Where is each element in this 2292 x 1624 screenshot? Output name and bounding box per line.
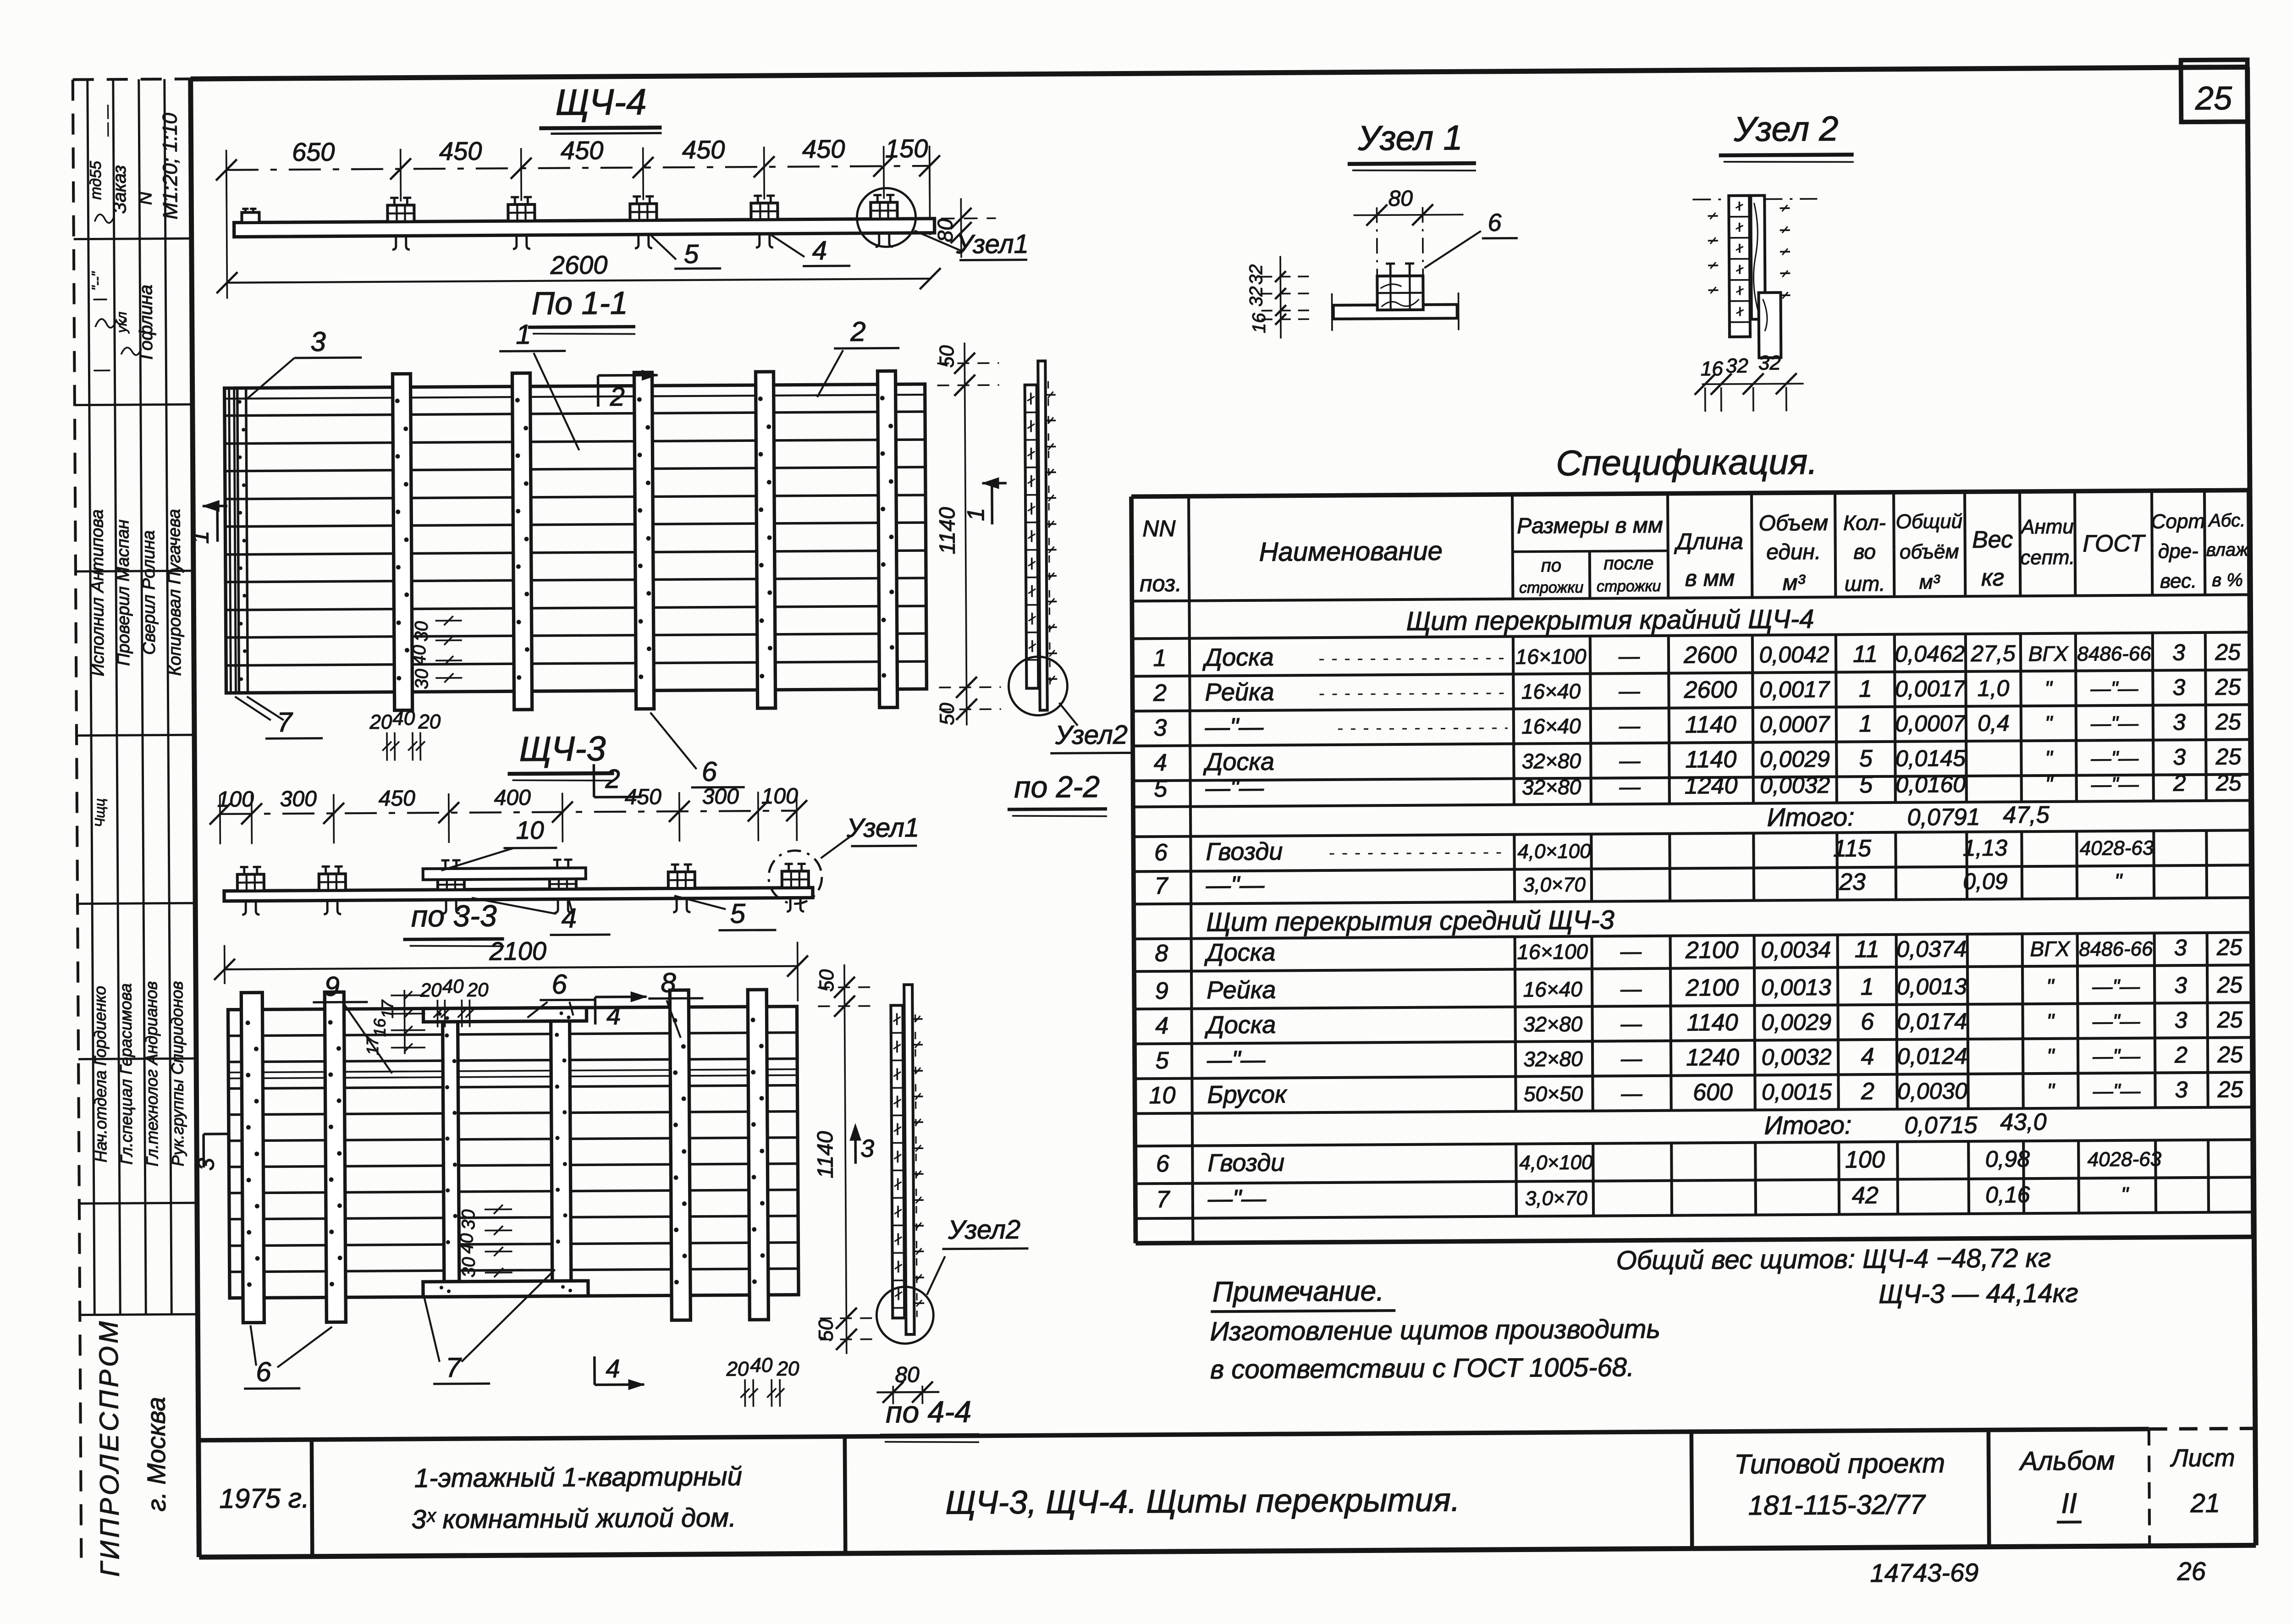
svg-text:Длина: Длина — [1674, 528, 1743, 555]
svg-text:30: 30 — [459, 1257, 479, 1277]
svg-text:": " — [2045, 746, 2054, 770]
svg-text:укл: укл — [115, 312, 130, 334]
svg-text:450: 450 — [802, 134, 845, 164]
svg-text:0,16: 0,16 — [1985, 1182, 2030, 1208]
svg-text:9: 9 — [324, 971, 340, 1002]
svg-text:25: 25 — [2215, 639, 2241, 665]
svg-text:0,0374: 0,0374 — [1896, 936, 1967, 962]
svg-text:23: 23 — [1839, 869, 1866, 895]
svg-text:Наименование: Наименование — [1259, 536, 1443, 567]
svg-text:—"—: —"— — [2092, 1045, 2141, 1068]
svg-text:в мм: в мм — [1685, 565, 1735, 591]
svg-text:600: 600 — [1693, 1079, 1733, 1106]
svg-text:10: 10 — [516, 816, 544, 844]
svg-text:7: 7 — [1154, 873, 1168, 899]
svg-text:един.: един. — [1766, 540, 1821, 565]
svg-text:3: 3 — [2175, 1007, 2187, 1033]
svg-text:5: 5 — [1155, 1047, 1169, 1074]
svg-text:0,0032: 0,0032 — [1760, 772, 1830, 798]
svg-text:Сверил Ролина: Сверил Ролина — [139, 530, 159, 655]
svg-text:Размеры в мм: Размеры в мм — [1517, 513, 1663, 539]
svg-text:9: 9 — [1155, 978, 1168, 1004]
svg-text:1: 1 — [1859, 710, 1872, 737]
svg-text:3: 3 — [2174, 972, 2187, 998]
svg-text:450: 450 — [439, 137, 482, 166]
svg-text:40: 40 — [409, 645, 430, 666]
svg-text:0,0034: 0,0034 — [1761, 937, 1831, 963]
svg-text:": " — [2044, 677, 2053, 700]
svg-text:—"—: —"— — [2092, 1010, 2141, 1033]
svg-text:вес.: вес. — [2160, 570, 2197, 592]
svg-text:1: 1 — [1861, 974, 1874, 1000]
svg-text:25: 25 — [2195, 80, 2233, 117]
svg-text:Узел2: Узел2 — [1055, 720, 1128, 750]
svg-text:0,0715: 0,0715 — [1904, 1112, 1978, 1139]
svg-text:650: 650 — [292, 137, 335, 166]
svg-text:0,0124: 0,0124 — [1897, 1043, 1967, 1069]
svg-text:—"—: —"— — [1207, 1046, 1266, 1074]
svg-text:32: 32 — [1758, 352, 1781, 374]
svg-text:30: 30 — [412, 621, 432, 642]
svg-text:25: 25 — [2215, 674, 2241, 699]
svg-text:Щит перекрытия крайний ЩЧ-4: Щит перекрытия крайний ЩЧ-4 — [1406, 604, 1814, 636]
svg-text:Гл.технолог Андрианов: Гл.технолог Андрианов — [142, 981, 161, 1166]
svg-text:—: — — [1618, 679, 1640, 703]
svg-text:3,0×70: 3,0×70 — [1523, 874, 1586, 897]
svg-text:4: 4 — [606, 1354, 620, 1383]
svg-text:5: 5 — [1859, 745, 1873, 772]
svg-text:1975 г.: 1975 г. — [219, 1483, 309, 1514]
svg-text:": " — [2047, 1079, 2055, 1103]
svg-text:1: 1 — [187, 530, 214, 544]
svg-text:5: 5 — [730, 898, 745, 929]
svg-text:3: 3 — [2175, 1077, 2187, 1102]
svg-text:1-этажный 1-квартирный: 1-этажный 1-квартирный — [414, 1461, 742, 1493]
svg-text:7: 7 — [277, 707, 293, 738]
svg-text:Абс.: Абс. — [2208, 510, 2245, 530]
svg-text:тд55: тд55 — [87, 161, 105, 200]
svg-text:—"—: —"— — [1205, 713, 1264, 741]
svg-text:80: 80 — [933, 219, 957, 242]
svg-text:17: 17 — [363, 1036, 382, 1055]
svg-text:Кол-: Кол- — [1843, 511, 1886, 535]
svg-text:2600: 2600 — [1683, 642, 1737, 669]
svg-text:20: 20 — [467, 979, 489, 1000]
svg-text:6: 6 — [256, 1356, 271, 1387]
svg-text:20: 20 — [418, 710, 441, 733]
svg-text:": " — [2115, 869, 2123, 893]
svg-text:4,0×100: 4,0×100 — [1519, 1151, 1593, 1174]
svg-text:450: 450 — [625, 785, 662, 809]
svg-text:2600: 2600 — [1683, 677, 1737, 704]
svg-text:4: 4 — [606, 1001, 621, 1030]
svg-text:1140: 1140 — [1685, 746, 1736, 773]
svg-text:2: 2 — [605, 764, 620, 794]
svg-text:—"—: —"— — [2091, 773, 2139, 796]
svg-text:32×80: 32×80 — [1522, 775, 1581, 799]
svg-text:30: 30 — [412, 669, 432, 689]
svg-text:Проверил Маспан: Проверил Маспан — [113, 519, 133, 666]
svg-text:2100: 2100 — [489, 936, 546, 966]
svg-text:16: 16 — [1249, 313, 1269, 333]
svg-text:80: 80 — [1388, 187, 1413, 211]
svg-text:0,0013: 0,0013 — [1761, 974, 1831, 1001]
svg-text:"--": "--" — [89, 271, 105, 291]
svg-text:—: — — [1620, 1012, 1642, 1035]
svg-text:0,09: 0,09 — [1963, 868, 2008, 894]
svg-text:2600: 2600 — [550, 250, 608, 280]
svg-text:0,0013: 0,0013 — [1897, 974, 1967, 1000]
svg-text:во: во — [1853, 539, 1876, 563]
svg-text:100: 100 — [761, 784, 799, 809]
svg-text:в %: в % — [2212, 570, 2243, 590]
svg-text:0,0042: 0,0042 — [1759, 642, 1829, 668]
svg-text:11: 11 — [1855, 936, 1879, 963]
svg-text:": " — [2046, 1009, 2055, 1033]
svg-text:": " — [2046, 974, 2055, 998]
svg-text:3: 3 — [193, 1158, 219, 1171]
svg-text:1240: 1240 — [1686, 1044, 1739, 1071]
svg-text:—: — — [1618, 644, 1640, 668]
svg-text:1,13: 1,13 — [1963, 835, 2008, 861]
svg-text:1140: 1140 — [935, 507, 960, 555]
svg-text:7: 7 — [1156, 1186, 1170, 1213]
svg-text:1,0: 1,0 — [1978, 675, 2010, 701]
svg-text:—: — — [1620, 1081, 1642, 1105]
svg-text:25: 25 — [2217, 1076, 2243, 1102]
svg-text:ЩЧ-3, ЩЧ-4. Щиты перекрытия: ЩЧ-3, ЩЧ-4. Щиты перекрытия. — [945, 1481, 1460, 1521]
svg-text:—"—: —"— — [2090, 712, 2139, 735]
svg-text:42: 42 — [1852, 1182, 1879, 1209]
svg-text:16×40: 16×40 — [1523, 977, 1582, 1002]
svg-text:300: 300 — [702, 784, 739, 809]
svg-text:—: — — [1620, 977, 1642, 1001]
svg-text:Доска: Доска — [1203, 748, 1274, 776]
svg-text:Заказ: Заказ — [110, 165, 130, 214]
svg-text:4: 4 — [812, 236, 827, 265]
svg-text:0,0791: 0,0791 — [1907, 804, 1980, 831]
svg-text:3: 3 — [860, 1135, 874, 1162]
svg-text:3: 3 — [2174, 935, 2187, 960]
svg-text:2: 2 — [850, 316, 866, 347]
svg-text:2: 2 — [609, 382, 625, 412]
svg-text:— —: — — — [99, 105, 115, 137]
svg-text:4,0×100: 4,0×100 — [1517, 840, 1591, 863]
svg-text:5: 5 — [1859, 771, 1873, 798]
svg-text:32×80: 32×80 — [1523, 1047, 1583, 1071]
svg-text:25: 25 — [2215, 743, 2241, 769]
svg-text:0,0462: 0,0462 — [1895, 641, 1965, 667]
svg-text:ГИПРОЛЕСПРОМ: ГИПРОЛЕСПРОМ — [94, 1318, 125, 1577]
svg-text:0,0029: 0,0029 — [1761, 1009, 1831, 1035]
svg-text:0,0032: 0,0032 — [1761, 1044, 1831, 1070]
svg-text:4: 4 — [1155, 1013, 1168, 1039]
svg-text:шт.: шт. — [1845, 572, 1885, 596]
svg-text:0,0007: 0,0007 — [1759, 711, 1830, 738]
svg-text:Доска: Доска — [1205, 1011, 1276, 1039]
svg-text:450: 450 — [682, 135, 725, 164]
svg-text:0,0145: 0,0145 — [1895, 745, 1966, 771]
svg-text:М1:20; 1:10: М1:20; 1:10 — [159, 113, 182, 220]
svg-text:4028-63: 4028-63 — [2080, 837, 2154, 860]
svg-text:0,0007: 0,0007 — [1895, 710, 1966, 737]
svg-text:Итого:: Итого: — [1767, 802, 1854, 831]
svg-text:100: 100 — [217, 787, 254, 811]
svg-text:3: 3 — [2172, 639, 2185, 665]
svg-text:3ˣ комнатный жилой дом.: 3ˣ комнатный жилой дом. — [411, 1503, 736, 1534]
svg-text:2100: 2100 — [1685, 974, 1739, 1002]
svg-text:20: 20 — [369, 711, 392, 733]
svg-text:20: 20 — [726, 1358, 749, 1380]
svg-text:строжки: строжки — [1597, 578, 1661, 595]
svg-text:2100: 2100 — [1685, 937, 1739, 964]
svg-text:0,0015: 0,0015 — [1762, 1079, 1832, 1105]
svg-text:Вес: Вес — [1972, 526, 2013, 553]
svg-text:8: 8 — [1155, 940, 1168, 967]
svg-text:50: 50 — [936, 703, 959, 726]
svg-text:объём: объём — [1900, 540, 1959, 563]
svg-text:8486-66: 8486-66 — [2079, 938, 2153, 961]
svg-text:7: 7 — [446, 1352, 462, 1383]
svg-text:": " — [2045, 711, 2054, 735]
svg-text:1: 1 — [516, 319, 531, 350]
svg-text:По 1-1: По 1-1 — [531, 285, 628, 321]
svg-text:Узел1: Узел1 — [956, 229, 1029, 259]
svg-text:": " — [2121, 1183, 2130, 1206]
svg-text:влаж: влаж — [2206, 539, 2249, 560]
svg-text:Щит перекрытия средний ЩЧ-3: Щит перекрытия средний ЩЧ-3 — [1206, 905, 1614, 937]
svg-text:400: 400 — [494, 786, 531, 810]
svg-text:3: 3 — [2173, 709, 2186, 735]
svg-text:по: по — [1541, 556, 1562, 576]
svg-text:25: 25 — [2216, 972, 2242, 997]
svg-text:—"—: —"— — [1205, 774, 1265, 802]
svg-text:1: 1 — [1859, 676, 1872, 702]
svg-text:ВГХ: ВГХ — [2028, 642, 2069, 666]
svg-text:поз.: поз. — [1140, 571, 1182, 597]
svg-text:г. Москва: г. Москва — [141, 1397, 171, 1511]
svg-text:6: 6 — [702, 756, 717, 787]
svg-text:25: 25 — [2217, 1007, 2243, 1032]
svg-text:—: — — [1619, 775, 1641, 798]
svg-text:4: 4 — [1861, 1043, 1874, 1070]
svg-text:Анти: Анти — [2020, 516, 2074, 539]
svg-text:6: 6 — [1154, 839, 1168, 866]
svg-text:0,0017: 0,0017 — [1895, 676, 1966, 702]
svg-text:16×40: 16×40 — [1521, 714, 1581, 738]
svg-text:Доска: Доска — [1202, 644, 1274, 672]
svg-text:50: 50 — [815, 969, 838, 992]
svg-text:Нач.отдела Гордиенко: Нач.отдела Гордиенко — [90, 986, 110, 1163]
svg-text:450: 450 — [561, 136, 604, 165]
svg-text:—"—: —"— — [2093, 1080, 2141, 1103]
svg-text:16: 16 — [1701, 358, 1724, 380]
svg-text:40: 40 — [442, 975, 464, 997]
svg-text:50×50: 50×50 — [1524, 1082, 1583, 1106]
svg-text:450: 450 — [379, 786, 416, 810]
svg-text:16×100: 16×100 — [1515, 644, 1587, 669]
svg-text:0,0160: 0,0160 — [1895, 771, 1966, 798]
svg-text:300: 300 — [280, 787, 317, 811]
svg-text:43,0: 43,0 — [2000, 1109, 2047, 1136]
svg-text:Узел 1: Узел 1 — [1357, 118, 1463, 158]
svg-text:150: 150 — [885, 134, 928, 163]
svg-text:N: N — [135, 192, 155, 205]
svg-text:32: 32 — [1246, 264, 1266, 285]
svg-text:21: 21 — [2190, 1488, 2220, 1518]
svg-text:Спецификация.: Спецификация. — [1556, 441, 1818, 483]
svg-text:3: 3 — [310, 326, 326, 357]
svg-text:0,98: 0,98 — [1985, 1146, 2030, 1172]
svg-text:Гл.специал Герасимова: Гл.специал Герасимова — [116, 983, 136, 1165]
svg-text:1: 1 — [963, 508, 989, 521]
svg-text:47,5: 47,5 — [2003, 802, 2050, 829]
svg-text:16: 16 — [370, 1018, 389, 1037]
svg-text:0,0017: 0,0017 — [1759, 677, 1830, 703]
svg-text:по 3-3: по 3-3 — [411, 898, 497, 933]
svg-text:16×40: 16×40 — [1521, 679, 1581, 704]
svg-text:100: 100 — [1845, 1146, 1885, 1173]
svg-text:32×80: 32×80 — [1522, 749, 1581, 773]
svg-text:Итого:: Итого: — [1764, 1110, 1851, 1140]
svg-text:Копировал Пугачева: Копировал Пугачева — [165, 509, 185, 676]
svg-text:11: 11 — [1853, 641, 1878, 667]
svg-text:Типовой проект: Типовой проект — [1734, 1448, 1945, 1480]
svg-text:20: 20 — [776, 1358, 799, 1380]
svg-text:ГОСТ: ГОСТ — [2083, 530, 2146, 557]
svg-text:ЩЧ-4: ЩЧ-4 — [555, 81, 646, 122]
svg-text:5: 5 — [1154, 776, 1168, 802]
svg-text:30: 30 — [458, 1209, 479, 1230]
svg-text:—: — — [1619, 749, 1641, 772]
svg-text:8486-66: 8486-66 — [2077, 643, 2151, 666]
svg-text:1140: 1140 — [1687, 1009, 1738, 1036]
svg-text:4: 4 — [1154, 749, 1167, 776]
svg-text:2: 2 — [2173, 770, 2186, 796]
svg-text:2: 2 — [1153, 680, 1167, 706]
svg-text:—"—: —"— — [1207, 1185, 1267, 1213]
svg-text:II: II — [2061, 1488, 2077, 1519]
svg-text:Рейка: Рейка — [1207, 976, 1276, 1004]
svg-text:м³: м³ — [1783, 571, 1806, 595]
svg-text:Брусок: Брусок — [1207, 1080, 1288, 1108]
svg-text:181-115-32/77: 181-115-32/77 — [1748, 1489, 1927, 1520]
svg-text:Гофлина: Гофлина — [136, 285, 156, 360]
svg-text:17: 17 — [378, 999, 397, 1018]
svg-text:0,4: 0,4 — [1978, 710, 2010, 736]
svg-text:4028-63: 4028-63 — [2088, 1148, 2162, 1171]
svg-text:Гвозди: Гвозди — [1207, 1149, 1284, 1177]
svg-text:Общий: Общий — [1896, 510, 1963, 533]
svg-text:Общий вес щитов: ЩЧ-4 −48,72: Общий вес щитов: ЩЧ-4 −48,72 кг — [1616, 1243, 2051, 1275]
svg-text:40: 40 — [750, 1354, 773, 1376]
svg-text:ВГХ: ВГХ — [2030, 937, 2071, 961]
svg-text:м³: м³ — [1919, 571, 1940, 593]
svg-text:Лист: Лист — [2170, 1444, 2235, 1472]
svg-text:25: 25 — [2215, 770, 2242, 795]
svg-text:Сорт: Сорт — [2151, 510, 2205, 533]
svg-text:строжки: строжки — [1519, 579, 1584, 597]
svg-text:16×100: 16×100 — [1517, 940, 1588, 964]
svg-text:6: 6 — [1861, 1008, 1874, 1035]
svg-text:25: 25 — [2216, 934, 2242, 960]
svg-text:Объем: Объем — [1758, 511, 1828, 536]
svg-text:10: 10 — [1149, 1082, 1175, 1109]
svg-text:20: 20 — [420, 979, 442, 1001]
svg-text:0,0030: 0,0030 — [1897, 1078, 1967, 1104]
svg-text:40: 40 — [392, 707, 415, 729]
svg-text:Альбом: Альбом — [2019, 1446, 2115, 1476]
svg-text:ЩЧ-3: ЩЧ-3 — [519, 729, 606, 769]
svg-text:в соответствии с ГОСТ 1005-68.: в соответствии с ГОСТ 1005-68. — [1210, 1352, 1634, 1384]
svg-text:3: 3 — [1153, 715, 1167, 741]
svg-text:Рейка: Рейка — [1205, 678, 1274, 706]
svg-text:ЩЧ-3 — 44,14кг: ЩЧ-3 — 44,14кг — [1879, 1278, 2078, 1310]
svg-text:": " — [2047, 1044, 2055, 1068]
svg-text:—: — — [1620, 1046, 1642, 1070]
svg-text:0,0174: 0,0174 — [1897, 1008, 1967, 1035]
svg-text:6: 6 — [1488, 209, 1502, 237]
svg-text:септ.: септ. — [2020, 546, 2075, 569]
svg-text:3,0×70: 3,0×70 — [1525, 1187, 1588, 1210]
svg-text:Исполнил Антипова: Исполнил Антипова — [88, 509, 108, 676]
svg-text:27,5: 27,5 — [1970, 640, 2016, 666]
svg-text:80: 80 — [895, 1363, 920, 1387]
svg-text:1: 1 — [1153, 645, 1166, 672]
svg-text:—"—: —"— — [1206, 871, 1265, 899]
svg-text:50: 50 — [815, 1319, 837, 1342]
svg-text:26: 26 — [2176, 1557, 2206, 1585]
svg-text:50: 50 — [936, 345, 958, 368]
svg-text:5: 5 — [684, 239, 699, 269]
svg-text:1240: 1240 — [1685, 772, 1738, 799]
svg-text:кг: кг — [1981, 564, 2005, 591]
svg-text:Чщц: Чщц — [93, 798, 108, 827]
svg-text:25: 25 — [2217, 1041, 2243, 1067]
svg-text:32: 32 — [1246, 286, 1266, 307]
svg-text:Рук.группы Спиридонов: Рук.группы Спиридонов — [167, 981, 187, 1166]
svg-text:40: 40 — [457, 1233, 477, 1254]
svg-text:по 4-4: по 4-4 — [886, 1394, 971, 1429]
svg-text:Изготовление щитов производи: Изготовление щитов производить — [1210, 1314, 1660, 1347]
svg-text:1140: 1140 — [813, 1131, 838, 1178]
svg-text:по 2-2: по 2-2 — [1014, 770, 1100, 804]
svg-text:NN: NN — [1142, 516, 1176, 541]
svg-text:32: 32 — [1726, 355, 1748, 377]
svg-text:6: 6 — [1156, 1151, 1169, 1177]
svg-text:4: 4 — [561, 903, 577, 933]
svg-text:Узел 2: Узел 2 — [1733, 110, 1839, 149]
svg-text:14743-69: 14743-69 — [1870, 1558, 1978, 1587]
svg-text:3: 3 — [2172, 674, 2185, 700]
svg-text:Узел1: Узел1 — [846, 813, 919, 843]
svg-text:Узел2: Узел2 — [948, 1215, 1020, 1245]
svg-text:Гвозди: Гвозди — [1206, 838, 1283, 866]
svg-text:32×80: 32×80 — [1523, 1012, 1583, 1036]
svg-text:2: 2 — [2174, 1042, 2187, 1068]
svg-text:Примечание.: Примечание. — [1212, 1275, 1384, 1308]
svg-text:—"—: —"— — [2092, 975, 2140, 998]
svg-text:Доска: Доска — [1204, 939, 1276, 967]
svg-text:115: 115 — [1833, 835, 1872, 862]
svg-text:—: — — [1620, 939, 1642, 963]
svg-text:дре-: дре- — [2158, 540, 2198, 563]
svg-text:—: — — [1619, 714, 1641, 738]
svg-text:1140: 1140 — [1685, 711, 1736, 738]
svg-text:после: после — [1603, 553, 1653, 574]
svg-text:—"—: —"— — [2090, 747, 2139, 770]
svg-text:0,0029: 0,0029 — [1760, 746, 1830, 772]
